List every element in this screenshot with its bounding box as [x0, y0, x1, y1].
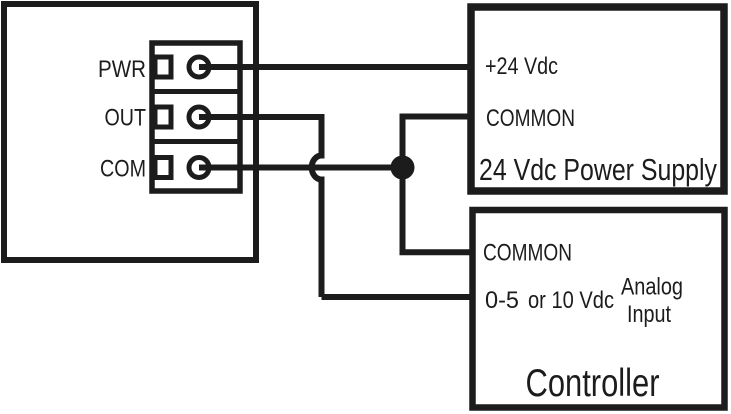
label +24 Vdc — [485, 53, 558, 80]
label Analog — [621, 274, 683, 301]
svg-text:or 10 Vdc: or 10 Vdc — [528, 287, 614, 314]
svg-text:Controller: Controller — [526, 362, 660, 405]
label Input — [627, 301, 671, 328]
terminal block divider 1 — [152, 89, 240, 94]
wire OUT vertical segment with hop over COM wire — [312, 114, 322, 297]
terminal PWR screw head — [189, 57, 209, 77]
junction node (solder dot) — [391, 156, 415, 180]
svg-text:+24 Vdc: +24 Vdc — [485, 53, 558, 80]
wire junction up to power supply COMMON — [403, 117, 475, 168]
label OUT — [105, 105, 147, 132]
terminal COM screw head — [189, 158, 209, 178]
terminal OUT clamp square — [155, 107, 171, 127]
svg-text:OUT: OUT — [105, 105, 147, 132]
terminal OUT screw head — [189, 107, 209, 127]
24 Vdc power supply box — [471, 7, 724, 191]
wire OUT bottom horizontal segment to controller analog input — [322, 294, 476, 300]
label Controller — [526, 362, 660, 405]
controller box — [473, 210, 725, 408]
svg-text:Input: Input — [627, 301, 671, 328]
terminal block TB1 outline — [152, 43, 240, 191]
svg-text:PWR: PWR — [98, 56, 146, 83]
terminal COM clamp square — [155, 158, 171, 178]
wire OUT horizontal segment — [199, 114, 322, 120]
svg-text:COM: COM — [100, 155, 146, 182]
label 24 Vdc Power Supply — [479, 153, 718, 187]
wire COM horizontal segment to junction — [199, 165, 403, 171]
label COMMON (power supply) — [486, 105, 575, 132]
svg-text:COMMON: COMMON — [483, 240, 572, 267]
terminal block divider 2 — [152, 139, 240, 144]
svg-text:24 Vdc Power Supply: 24 Vdc Power Supply — [479, 153, 718, 187]
svg-text:COMMON: COMMON — [486, 105, 575, 132]
wire junction down to controller COMMON — [403, 168, 476, 253]
device box (sensor/transmitter) — [4, 4, 256, 260]
terminal PWR clamp square — [155, 57, 171, 77]
label 0-5 — [485, 287, 519, 314]
label COM — [100, 155, 146, 182]
label PWR — [98, 56, 146, 83]
svg-text:0-5: 0-5 — [485, 287, 519, 314]
label COMMON (controller) — [483, 240, 572, 267]
label or 10 Vdc — [528, 287, 614, 314]
wire PWR to +24 Vdc — [199, 64, 474, 70]
svg-text:Analog: Analog — [621, 274, 683, 301]
